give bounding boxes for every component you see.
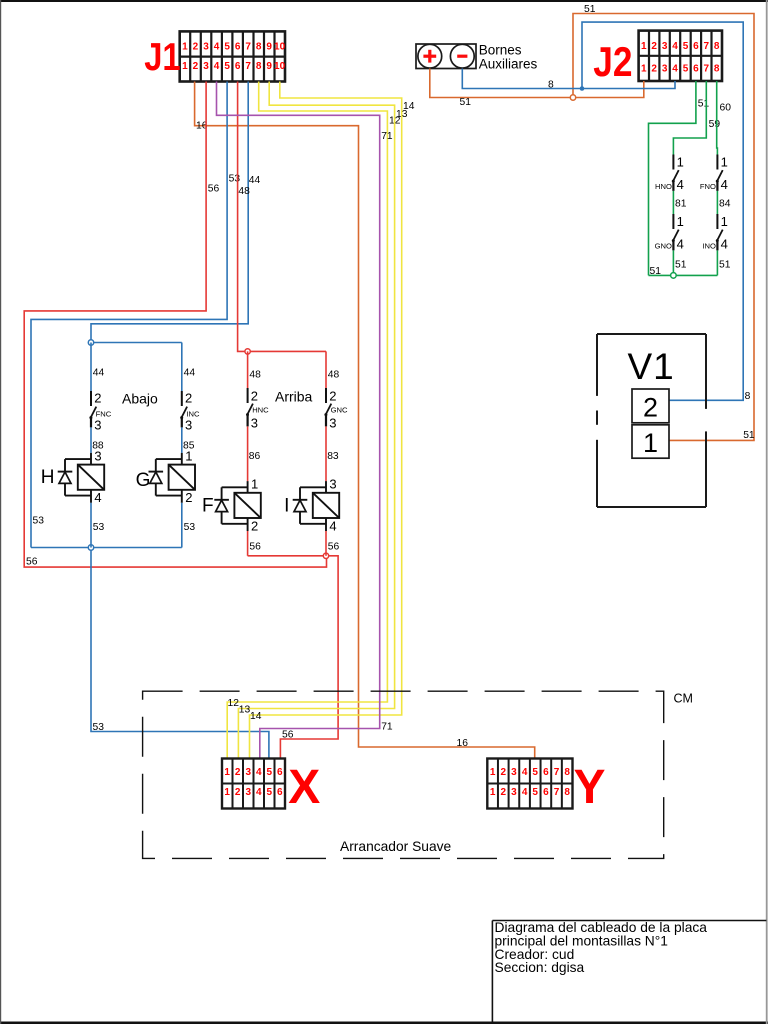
- svg-text:6: 6: [693, 41, 699, 52]
- connector V1 pin 1: [632, 425, 669, 458]
- svg-text:3: 3: [203, 61, 209, 72]
- svg-text:1: 1: [721, 214, 728, 229]
- svg-text:8: 8: [714, 64, 720, 75]
- svg-text:4: 4: [672, 41, 678, 52]
- svg-text:HNC: HNC: [252, 405, 269, 414]
- wire 84 (FNO to INO, green): [716, 191, 718, 214]
- svg-text:3: 3: [203, 42, 209, 53]
- svg-text:7: 7: [554, 787, 560, 798]
- svg-text:FNO: FNO: [700, 182, 716, 191]
- svg-text:53: 53: [93, 722, 105, 733]
- svg-text:56: 56: [282, 729, 294, 740]
- wire 8 (junction to V1:2, blue): [582, 22, 743, 400]
- wire 13 (J1:9 to X:2, yellow): [238, 82, 394, 759]
- svg-text:6: 6: [235, 61, 241, 72]
- svg-text:3: 3: [511, 767, 517, 778]
- svg-text:4: 4: [677, 237, 684, 252]
- svg-text:2: 2: [235, 767, 241, 778]
- wire 86 (HNC to coil F, red): [247, 426, 249, 481]
- svg-text:4: 4: [721, 177, 728, 192]
- wire 53 (coil G to rail, blue): [181, 503, 183, 548]
- svg-text:86: 86: [249, 451, 261, 462]
- Abajo loop bottom rail (blue): [31, 547, 182, 549]
- svg-text:7: 7: [704, 64, 710, 75]
- svg-text:7: 7: [245, 61, 251, 72]
- svg-text:60: 60: [720, 103, 732, 114]
- wire 53 (coil H to rail, blue): [90, 503, 92, 548]
- svg-text:1: 1: [251, 477, 258, 492]
- svg-text:2: 2: [251, 389, 258, 404]
- svg-text:7: 7: [245, 42, 251, 53]
- svg-text:Auxiliares: Auxiliares: [479, 57, 538, 72]
- svg-text:1: 1: [182, 61, 188, 72]
- J2 pin numbers row 2: [641, 64, 720, 75]
- relay coil H: [41, 448, 104, 505]
- module CM (dashed box): [143, 691, 664, 858]
- svg-text:56: 56: [208, 184, 220, 195]
- svg-text:2: 2: [329, 389, 336, 404]
- wire 88 (FNC to coil H, blue): [90, 427, 92, 453]
- svg-text:14: 14: [250, 711, 262, 722]
- node junction 56 (red open circle): [323, 553, 328, 558]
- svg-text:4: 4: [256, 787, 262, 798]
- svg-text:9: 9: [266, 61, 272, 72]
- svg-text:8: 8: [564, 767, 570, 778]
- svg-text:GNO: GNO: [655, 242, 672, 251]
- limit switch HNO: [655, 155, 684, 193]
- svg-text:4: 4: [94, 490, 101, 505]
- svg-text:8: 8: [256, 61, 262, 72]
- svg-text:2: 2: [193, 61, 199, 72]
- svg-text:1: 1: [677, 155, 684, 170]
- Y pin numbers row 2: [490, 787, 571, 798]
- svg-text:INO: INO: [702, 242, 716, 251]
- J1 pin numbers row 1: [182, 42, 285, 53]
- svg-text:8: 8: [256, 42, 262, 53]
- component V1 outer box: [597, 334, 706, 507]
- svg-text:4: 4: [214, 61, 220, 72]
- svg-text:1: 1: [490, 787, 496, 798]
- node junction 53 (blue open circle): [88, 545, 93, 550]
- junction 8 (solid dot): [580, 86, 585, 91]
- svg-text:2: 2: [651, 41, 657, 52]
- svg-text:48: 48: [328, 369, 340, 380]
- wire 48 branch F (red): [247, 351, 249, 388]
- svg-text:7: 7: [554, 767, 560, 778]
- wire 83 (GNC to coil I, red): [325, 426, 327, 481]
- limit switch INO: [702, 214, 727, 252]
- svg-text:5: 5: [224, 42, 230, 53]
- svg-text:6: 6: [277, 787, 283, 798]
- title block: [492, 921, 766, 1022]
- svg-text:CM: CM: [674, 692, 693, 706]
- svg-text:53: 53: [93, 522, 105, 533]
- svg-text:6: 6: [277, 767, 283, 778]
- svg-text:56: 56: [328, 541, 340, 552]
- switch INC: [180, 391, 200, 433]
- svg-text:13: 13: [239, 705, 251, 716]
- svg-text:Y: Y: [574, 761, 606, 814]
- svg-text:1: 1: [643, 428, 658, 458]
- junction 51 (open circle): [570, 95, 575, 100]
- relay coil I: [284, 477, 339, 534]
- svg-text:4: 4: [214, 42, 220, 53]
- svg-text:HNO: HNO: [655, 182, 672, 191]
- svg-text:1: 1: [641, 64, 647, 75]
- switch FNC: [89, 391, 111, 433]
- wire 51 (GNO to rail, green): [672, 250, 674, 275]
- Abajo loop top rail (blue): [91, 342, 182, 344]
- wire 51 (INO to rail, green): [716, 250, 718, 275]
- svg-text:5: 5: [683, 41, 689, 52]
- svg-text:5: 5: [532, 787, 538, 798]
- limit switch FNO: [700, 155, 728, 193]
- connector X: [222, 759, 285, 809]
- svg-text:V1: V1: [628, 346, 675, 387]
- svg-text:2: 2: [651, 64, 657, 75]
- X pin numbers row 1: [224, 767, 283, 778]
- svg-text:J1: J1: [144, 34, 180, 78]
- svg-text:4: 4: [721, 237, 728, 252]
- svg-text:4: 4: [522, 787, 528, 798]
- wire 53 (J1:5 to Abajo bottom rail, blue): [31, 82, 227, 548]
- svg-text:51: 51: [584, 4, 596, 15]
- wire 44 branch G (blue): [181, 343, 183, 392]
- relay coil G: [136, 448, 195, 505]
- svg-text:8: 8: [564, 787, 570, 798]
- svg-text:10: 10: [274, 61, 286, 72]
- svg-text:83: 83: [327, 451, 339, 462]
- svg-text:53: 53: [33, 516, 45, 527]
- svg-text:3: 3: [246, 767, 252, 778]
- svg-text:I: I: [284, 495, 289, 516]
- svg-text:1: 1: [641, 41, 647, 52]
- svg-text:G: G: [136, 470, 151, 491]
- svg-text:5: 5: [532, 767, 538, 778]
- svg-text:48: 48: [249, 369, 261, 380]
- svg-text:2: 2: [185, 391, 192, 406]
- J2 pin numbers row 1: [641, 41, 720, 52]
- svg-text:3: 3: [511, 787, 517, 798]
- svg-text:44: 44: [184, 368, 196, 379]
- svg-text:44: 44: [249, 175, 261, 186]
- svg-text:10: 10: [274, 42, 286, 53]
- wire 56 (J1:3 down-left-across, red): [24, 82, 326, 568]
- wire 85 (INC to coil G, blue): [181, 427, 183, 453]
- svg-text:1: 1: [182, 42, 188, 53]
- svg-text:51: 51: [698, 99, 710, 110]
- J1 pin numbers row 2: [182, 61, 285, 72]
- svg-text:5: 5: [267, 787, 273, 798]
- svg-text:3: 3: [185, 417, 192, 432]
- svg-text:2: 2: [643, 393, 658, 423]
- svg-text:Arrancador Suave: Arrancador Suave: [340, 839, 452, 854]
- svg-text:4: 4: [329, 518, 336, 533]
- svg-text:51: 51: [460, 97, 472, 108]
- svg-text:8: 8: [745, 391, 751, 402]
- svg-text:2: 2: [501, 767, 507, 778]
- node junction 48 (red open circle): [245, 349, 250, 354]
- svg-text:51: 51: [719, 260, 731, 271]
- svg-text:12: 12: [228, 698, 240, 709]
- connector J2: [639, 31, 722, 81]
- svg-text:16: 16: [457, 738, 469, 749]
- svg-text:7: 7: [704, 41, 710, 52]
- svg-text:3: 3: [329, 477, 336, 492]
- svg-text:F: F: [202, 495, 214, 516]
- wire 51 (Bornes + to J2:1, orange): [430, 69, 644, 98]
- svg-text:2: 2: [501, 787, 507, 798]
- svg-text:2: 2: [185, 490, 192, 505]
- svg-text:5: 5: [683, 64, 689, 75]
- svg-text:3: 3: [246, 787, 252, 798]
- node junction 44 (blue open circle): [88, 340, 93, 345]
- switch HNC: [246, 388, 269, 430]
- svg-text:3: 3: [94, 448, 101, 463]
- svg-text:Seccion: dgisa: Seccion: dgisa: [495, 960, 585, 975]
- svg-text:51: 51: [675, 260, 687, 271]
- svg-text:6: 6: [693, 64, 699, 75]
- wire 8 (Bornes - to J2:4, blue): [462, 69, 675, 89]
- svg-text:51: 51: [743, 430, 755, 441]
- svg-text:H: H: [41, 467, 55, 488]
- svg-text:9: 9: [266, 42, 272, 53]
- wire 71 (J1:4 to X:4, purple): [217, 82, 380, 759]
- svg-text:2: 2: [94, 391, 101, 406]
- svg-text:1: 1: [721, 155, 728, 170]
- svg-text:Bornes: Bornes: [479, 42, 522, 57]
- wire 16 (J1:2 to Y:5, orange): [195, 82, 535, 759]
- junction 51 (green open circle): [671, 273, 677, 279]
- svg-text:1: 1: [224, 787, 230, 798]
- svg-text:6: 6: [543, 787, 549, 798]
- svg-text:6: 6: [543, 767, 549, 778]
- relay coil F: [202, 477, 261, 534]
- Arriba loop top rail (red): [248, 350, 326, 352]
- svg-text:14: 14: [403, 101, 415, 112]
- wire 14 (J1:10 to X:3, yellow): [250, 82, 402, 759]
- svg-text:2: 2: [251, 518, 258, 533]
- svg-text:3: 3: [251, 415, 258, 430]
- svg-text:GNC: GNC: [331, 405, 348, 414]
- svg-text:4: 4: [677, 177, 684, 192]
- svg-text:59: 59: [709, 119, 721, 130]
- wire 56 (Arriba junction to X:6, red): [280, 556, 338, 759]
- svg-text:3: 3: [662, 41, 668, 52]
- svg-text:Abajo: Abajo: [122, 390, 158, 406]
- X pin numbers row 2: [224, 787, 283, 798]
- wire 59 (J2:7 to HNO, green): [673, 81, 706, 155]
- svg-text:84: 84: [719, 199, 731, 210]
- svg-text:Arriba: Arriba: [275, 389, 313, 405]
- wire 56 (coil F to rail, red): [247, 531, 249, 556]
- wire 44 (J1:7 to Abajo loop, blue): [91, 82, 248, 343]
- svg-text:2: 2: [193, 42, 199, 53]
- svg-text:44: 44: [93, 368, 105, 379]
- svg-text:X: X: [288, 761, 320, 814]
- svg-text:1: 1: [490, 767, 496, 778]
- svg-text:3: 3: [94, 417, 101, 432]
- connector V1 pin 2: [632, 389, 669, 423]
- svg-text:1: 1: [677, 214, 684, 229]
- svg-text:8: 8: [714, 41, 720, 52]
- svg-text:56: 56: [249, 541, 261, 552]
- svg-text:4: 4: [522, 767, 528, 778]
- wire 48 branch I (red): [325, 351, 327, 388]
- wire 53 (Abajo junction to X:5, blue): [91, 548, 269, 759]
- svg-text:48: 48: [238, 186, 250, 197]
- svg-text:4: 4: [256, 767, 262, 778]
- svg-text:1: 1: [185, 448, 192, 463]
- connector Y: [487, 759, 572, 809]
- wire 51 (junction to V1:1, orange): [573, 14, 754, 441]
- terminal block Bornes Auxiliares: [416, 44, 476, 69]
- svg-text:5: 5: [224, 61, 230, 72]
- Arriba loop bottom rail (red): [248, 555, 326, 557]
- svg-text:6: 6: [235, 42, 241, 53]
- svg-text:2: 2: [235, 787, 241, 798]
- svg-text:3: 3: [662, 64, 668, 75]
- svg-text:5: 5: [267, 767, 273, 778]
- svg-text:J2: J2: [593, 39, 632, 86]
- svg-text:71: 71: [381, 131, 393, 142]
- svg-text:1: 1: [224, 767, 230, 778]
- wire 60 (J2:8 to FNO, green): [716, 81, 719, 155]
- Y pin numbers row 1: [490, 767, 571, 778]
- svg-text:8: 8: [548, 80, 554, 91]
- wire 51 bottom rail (green): [649, 274, 718, 276]
- limit switch GNO: [655, 214, 684, 252]
- wire 51 (J2:6 to switch chain, green): [649, 81, 696, 275]
- svg-text:56: 56: [26, 557, 38, 568]
- svg-text:81: 81: [675, 199, 687, 210]
- svg-text:53: 53: [229, 174, 241, 185]
- wire 48 (J1:6 to Arriba loop, red): [238, 82, 248, 352]
- svg-text:4: 4: [672, 64, 678, 75]
- connector J1: [180, 31, 285, 81]
- wire 44 branch H (blue): [90, 343, 92, 392]
- svg-text:71: 71: [381, 722, 393, 733]
- wire 12 (J1:8 to X:1, yellow): [227, 82, 387, 759]
- wire 56 (coil I to rail, red): [325, 531, 327, 556]
- svg-text:3: 3: [329, 415, 336, 430]
- switch GNC: [324, 388, 348, 430]
- svg-text:53: 53: [184, 522, 196, 533]
- wire 81 (HNO to GNO, green): [672, 191, 674, 214]
